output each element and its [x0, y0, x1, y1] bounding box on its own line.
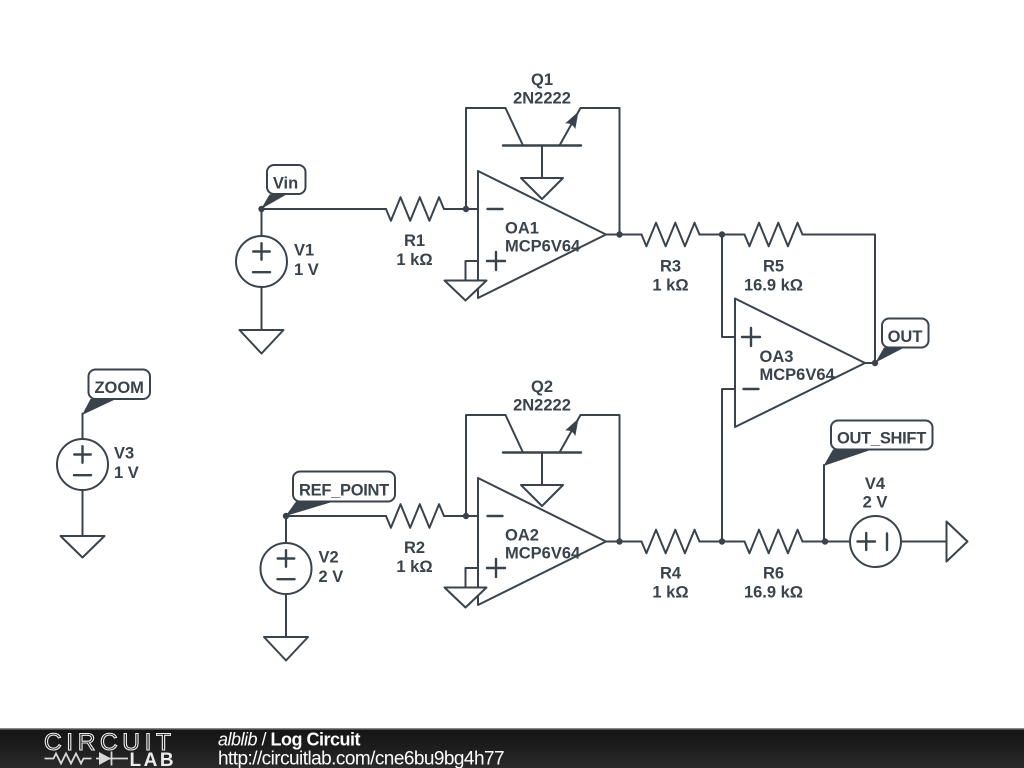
svg-text:Q2: Q2 — [531, 378, 553, 396]
node OA1 output — [616, 231, 622, 237]
svg-text:Vin: Vin — [273, 175, 298, 193]
resistor R6 — [744, 530, 850, 602]
svg-text:1 kΩ: 1 kΩ — [652, 584, 688, 602]
svg-text:R3: R3 — [660, 258, 681, 276]
ground under V1 — [240, 330, 284, 354]
svg-text:1 V: 1 V — [294, 261, 319, 279]
svg-text:R1: R1 — [404, 232, 425, 250]
svg-text:http://circuitlab.com/cne6bu9b: http://circuitlab.com/cne6bu9bg4h77 — [218, 749, 504, 768]
node R4 / OA3 inverting junction — [719, 538, 725, 544]
svg-text:MCP6V64: MCP6V64 — [505, 238, 581, 256]
wire R5 to OA3 output — [803, 235, 876, 364]
output port arrow — [947, 522, 968, 562]
svg-text:R6: R6 — [763, 565, 784, 583]
node Vin junction — [258, 206, 264, 212]
svg-text:V1: V1 — [294, 242, 314, 260]
net flag REF_POINT — [286, 472, 395, 517]
ground at OA2 non-inverting input — [445, 588, 487, 608]
svg-text:Q1: Q1 — [531, 71, 553, 89]
svg-text:R5: R5 — [763, 258, 784, 276]
node R3 / OA3 junction — [719, 231, 725, 237]
footer bar — [0, 728, 1024, 768]
wire Q1 collector loop — [466, 108, 506, 209]
wire OA3 output — [865, 362, 875, 364]
svg-text:2N2222: 2N2222 — [513, 90, 571, 108]
node R6 / OUT_SHIFT junction — [822, 538, 828, 544]
svg-text:V4: V4 — [865, 475, 886, 493]
node OA3 output — [872, 360, 878, 366]
wire Q2 emitter to OA2 output — [581, 415, 620, 542]
svg-text:REF_POINT: REF_POINT — [299, 481, 389, 499]
resistor R5 — [744, 223, 803, 295]
transistor Q1 — [503, 71, 581, 178]
svg-text:OA2: OA2 — [505, 527, 539, 545]
svg-text:1 kΩ: 1 kΩ — [396, 558, 432, 576]
wire OA3 non-inverting input — [722, 235, 735, 338]
wire V4 to output port — [901, 541, 947, 543]
net flag OUT_SHIFT — [824, 421, 933, 467]
svg-text:1 kΩ: 1 kΩ — [652, 277, 688, 295]
node R2 / Q2 collector junction — [463, 513, 469, 519]
svg-text:2 V: 2 V — [319, 568, 344, 586]
svg-text:1 kΩ: 1 kΩ — [396, 251, 432, 269]
wire Q1 emitter to OA1 output — [581, 108, 620, 235]
voltage source V4 — [850, 475, 901, 567]
wire Vin node to R1 — [262, 208, 387, 210]
ground under V2 — [264, 637, 308, 661]
wire OA2 output — [606, 541, 642, 543]
svg-text:alblib / Log Circuit: alblib / Log Circuit — [218, 730, 361, 750]
resistor R3 — [642, 223, 745, 295]
svg-text:V2: V2 — [319, 549, 339, 567]
ground at OA1 non-inverting input — [445, 281, 487, 301]
wire Q2 collector loop — [466, 415, 506, 516]
wire OA2 non-inverting input stub — [466, 568, 479, 588]
ground at Q2 base — [521, 485, 563, 506]
net flag ZOOM — [82, 370, 150, 416]
svg-text:16.9 kΩ: 16.9 kΩ — [744, 277, 803, 295]
svg-text:R4: R4 — [660, 565, 682, 583]
svg-text:2 V: 2 V — [863, 494, 888, 512]
voltage source V1 — [236, 209, 319, 330]
svg-text:MCP6V64: MCP6V64 — [505, 545, 581, 563]
resistor R4 — [642, 530, 745, 602]
node OA2 output — [616, 538, 622, 544]
op-amp OA2 — [478, 478, 606, 605]
wire REF_POINT node to R2 — [286, 515, 386, 517]
wire OA1 output — [606, 234, 642, 236]
svg-text:LAB: LAB — [130, 750, 177, 768]
svg-text:MCP6V64: MCP6V64 — [760, 366, 836, 384]
wire OA3 inverting input — [722, 389, 735, 542]
svg-text:OA3: OA3 — [760, 348, 794, 366]
transistor Q2 — [503, 378, 581, 485]
ground under V3 — [61, 536, 105, 558]
svg-text:V3: V3 — [114, 445, 134, 463]
svg-text:ZOOM: ZOOM — [94, 379, 144, 397]
op-amp OA1 — [478, 171, 606, 298]
voltage source V3 — [57, 414, 139, 537]
ground at Q1 base — [521, 178, 563, 199]
svg-text:R2: R2 — [404, 539, 425, 557]
op-amp OA3 — [735, 299, 865, 428]
resistor R1 — [386, 197, 478, 269]
logo resistor-diode line — [45, 752, 129, 766]
wire OA1 non-inverting input stub — [466, 261, 479, 281]
svg-text:OUT_SHIFT: OUT_SHIFT — [837, 430, 926, 448]
net flag OUT — [876, 319, 929, 363]
node REF_POINT junction — [283, 513, 289, 519]
svg-text:OA1: OA1 — [505, 220, 539, 238]
resistor R2 — [386, 504, 478, 576]
svg-text:1 V: 1 V — [114, 464, 139, 482]
wire OUT_SHIFT riser — [823, 465, 825, 542]
voltage source V2 — [261, 516, 344, 637]
net flag Vin — [261, 165, 306, 209]
svg-text:OUT: OUT — [888, 328, 923, 346]
node R1 / Q1 collector junction — [463, 206, 469, 212]
svg-text:2N2222: 2N2222 — [513, 397, 571, 415]
svg-text:16.9 kΩ: 16.9 kΩ — [744, 584, 803, 602]
